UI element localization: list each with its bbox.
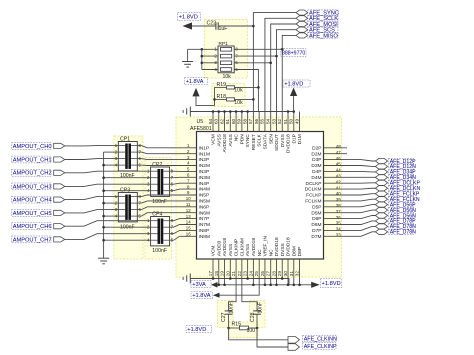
svg-text:AMPOUT_CH5: AMPOUT_CH5 (13, 211, 52, 217)
svg-text:VREF_IN: VREF_IN (263, 236, 269, 257)
svg-text:44: 44 (336, 168, 341, 173)
RP1 value 10k (223, 74, 232, 80)
svg-text:62: 62 (219, 118, 224, 124)
svg-text:31: 31 (289, 271, 294, 277)
svg-text:IN6M: IN6M (199, 210, 210, 216)
wire cap to U5 pin 5 (170, 170, 197, 172)
U5 bottom pin numbers (208, 271, 300, 277)
CP2 value 100nF (152, 199, 167, 205)
wire AVSS rail (190, 111, 293, 113)
svg-text:AVSS: AVSS (228, 244, 234, 256)
wire SCLK column (265, 18, 296, 111)
resistor R19 (227, 86, 235, 89)
wire R18 right to RESET (235, 98, 255, 101)
wire cap to U5 pin 9 (137, 195, 196, 197)
svg-text:D2M: D2M (311, 151, 321, 157)
resistor R18 (227, 98, 235, 101)
wire R15 left (229, 327, 240, 329)
wire MOSI column (271, 24, 296, 112)
wire U5 pin 46 (324, 160, 376, 161)
svg-text:U5: U5 (197, 119, 204, 125)
svg-text:D4M: D4M (311, 175, 321, 181)
U5 left pin names (199, 145, 210, 240)
net label AMPOUT_CH0 (12, 143, 52, 150)
port AFE_D78N pin 33 (375, 229, 387, 234)
net label 888+9770 (281, 49, 306, 57)
wire U5 pin 44 (324, 170, 376, 173)
junctions on AVSS rail (212, 110, 295, 113)
capacitor pack CP2 refdes (152, 162, 162, 168)
highlight box R18/R19 group (212, 84, 245, 107)
CP2 pin numbers (147, 169, 174, 194)
net label AFE_MISO (308, 33, 339, 40)
svg-text:IN3M: IN3M (199, 175, 210, 181)
wire AMPOUT_CH4 to cap (65, 197, 119, 200)
power label +1.8VD (bottom rail) (320, 279, 342, 288)
resistor R19 refdes (217, 82, 227, 88)
port AFE_D56P pin 38 (375, 202, 387, 207)
wire U5 pin 45 (324, 165, 376, 168)
wire U5 pin 47 stub (324, 153, 348, 155)
resistor R15 (240, 326, 249, 330)
svg-text:D7M: D7M (311, 234, 321, 240)
junctions on bottom AVSS rail (212, 277, 284, 280)
capacitor C27 (225, 311, 233, 314)
highlight box RP1/C22 group (205, 20, 248, 79)
ground (RP1) (182, 62, 193, 68)
svg-text:AMPOUT_CH2: AMPOUT_CH2 (13, 171, 52, 177)
ground (bottom rail left) (183, 274, 190, 284)
wire cap to U5 pin 12 (137, 213, 196, 216)
highlight box R15 (229, 322, 258, 338)
C28 refdes (250, 312, 256, 322)
wire AMPOUT_CH3 to cap (65, 184, 151, 186)
svg-text:AMPOUT_CH4: AMPOUT_CH4 (13, 198, 52, 204)
R15 value 100 (247, 328, 256, 334)
capacitor pack CP4 refdes (152, 212, 162, 218)
power label +1.8VD (lower left) (186, 326, 212, 333)
wire RP1 pin1 (188, 48, 218, 51)
highlight box CP2/CP4 column (145, 158, 172, 260)
svg-text:AFE5801: AFE5801 (190, 126, 212, 132)
U5 right pin names (305, 145, 322, 240)
svg-text:+3VA: +3VA (192, 282, 206, 288)
net label AMPOUT_CH3 (12, 183, 52, 190)
U5 top pin names (211, 133, 304, 153)
wire CLKINP drop (229, 259, 236, 311)
port AFE_MOSI (296, 21, 308, 26)
wire U5 pin 38 (324, 205, 376, 207)
svg-text:12: 12 (186, 208, 191, 213)
svg-text:D7P: D7P (312, 228, 321, 234)
wire RP1 pin6 (234, 62, 272, 65)
wire RP1 pin8 (234, 48, 283, 51)
net label AFE_D34P (389, 169, 417, 175)
svg-text:24: 24 (248, 271, 253, 277)
power +3VA arrow (211, 282, 218, 288)
power +1.8VA arrow (lower) (213, 293, 220, 298)
highlight box C28 (250, 301, 266, 328)
svg-text:+1.8VD: +1.8VD (284, 81, 303, 87)
port AMPOUT_CH3 (54, 184, 65, 189)
svg-text:25: 25 (254, 271, 259, 277)
net label AFE_FCLKP (389, 191, 420, 197)
svg-text:57: 57 (248, 118, 253, 124)
svg-text:100nF: 100nF (152, 248, 167, 254)
ground (input commons) (98, 258, 109, 264)
svg-text:10nF: 10nF (228, 302, 234, 313)
port AFE_D12N pin 45 (375, 164, 387, 169)
capacitor pack CP3 refdes (120, 188, 130, 194)
net label AFE_D78P (389, 218, 417, 224)
svg-text:+1.8VD: +1.8VD (179, 14, 198, 20)
wire bottom power rail (218, 284, 312, 286)
port AFE_D56N pin 36 (375, 213, 387, 218)
svg-text:20: 20 (225, 271, 230, 277)
svg-text:100nF: 100nF (152, 199, 167, 205)
svg-text:54: 54 (266, 118, 271, 124)
svg-text:DCLKP: DCLKP (306, 181, 322, 187)
svg-text:56: 56 (254, 118, 259, 124)
svg-text:34: 34 (336, 227, 341, 232)
power label +1.8VD (top left) (178, 13, 201, 21)
svg-text:14: 14 (186, 220, 191, 225)
net label AFE_D56N (389, 207, 417, 213)
svg-text:AVDD18: AVDD18 (222, 238, 228, 257)
port AMPOUT_CH6 (54, 224, 65, 229)
wire RP1 to ground (187, 49, 189, 61)
capacitor pack CP1 (118, 142, 137, 171)
capacitor C28 (253, 311, 261, 314)
resistor pack RP1 body (218, 46, 234, 73)
svg-text:D3P: D3P (312, 157, 321, 163)
net label AFE_D12P (389, 158, 417, 164)
svg-text:63: 63 (214, 118, 219, 124)
svg-text:DVSS: DVSS (280, 243, 286, 256)
port AMPOUT_CH4 (54, 197, 65, 202)
wire cap to U5 pin 15 (170, 230, 197, 233)
svg-text:AFE_CLKINP: AFE_CLKINP (304, 344, 337, 350)
op-amp U5 AFE5801 body (197, 132, 324, 260)
wire U5 pin 42 (324, 182, 376, 184)
U5 bottom pin names (211, 236, 304, 257)
net label AFE_D78N (389, 224, 417, 230)
capacitor pack CP4 (151, 217, 170, 246)
wire cap to U5 pin 3 (137, 159, 196, 160)
capacitor pack CP3 (118, 193, 137, 222)
svg-text:13: 13 (186, 214, 191, 219)
power label +1.8VA (upper) (185, 78, 208, 86)
svg-text:55: 55 (260, 118, 265, 124)
svg-text:52: 52 (277, 118, 282, 124)
svg-text:30: 30 (283, 271, 288, 277)
U5 refdes (197, 119, 204, 125)
svg-text:17: 17 (208, 271, 213, 277)
power label +1.8VA (lower) (191, 292, 213, 299)
svg-text:60: 60 (231, 118, 236, 124)
svg-text:+1.8VA: +1.8VA (192, 293, 211, 299)
port AMPOUT_CH2 (54, 170, 65, 175)
junctions on bottom power rail (217, 284, 300, 287)
net label AFE_DCLKP (389, 180, 421, 186)
svg-text:VCM: VCM (211, 246, 217, 257)
power +1.8VD arrow (183, 22, 193, 29)
svg-text:28: 28 (271, 271, 276, 277)
power +1.8VA arrow (upper) (192, 88, 199, 97)
net label AMPOUT_CH6 (12, 223, 52, 230)
svg-text:64: 64 (208, 118, 213, 124)
svg-text:CLKINM: CLKINM (239, 238, 245, 256)
wire cap to U5 pin 1 (137, 146, 196, 148)
svg-text:D2P: D2P (312, 145, 321, 151)
svg-text:SCLK: SCLK (257, 133, 263, 146)
svg-text:29: 29 (277, 271, 282, 277)
wire RP1 pins 2-4 tie (201, 49, 219, 69)
wire R19/R18 tie (213, 87, 216, 105)
svg-text:SYNC: SYNC (245, 134, 251, 148)
svg-text:D3M: D3M (311, 163, 321, 169)
U5 top pin wires (213, 112, 300, 132)
port AFE_D78N pin 34 (375, 224, 387, 229)
svg-text:D5P: D5P (312, 204, 321, 210)
svg-text:AMPOUT_CH1: AMPOUT_CH1 (13, 157, 52, 163)
ground (rail left) (183, 107, 190, 117)
port AFE_MISO (296, 33, 308, 38)
C22 value 1uF (219, 26, 228, 32)
svg-text:IN1M: IN1M (199, 151, 210, 157)
svg-text:SDOUT: SDOUT (274, 134, 280, 151)
svg-text:51: 51 (283, 118, 288, 124)
svg-text:AFE_D78N: AFE_D78N (390, 230, 416, 236)
highlight box C27 (218, 301, 234, 328)
wire to AFE_CLKINN (229, 328, 288, 340)
wires M-side cap returns (102, 152, 150, 241)
wire SYNC column (253, 13, 296, 112)
svg-text:AVSS: AVSS (216, 134, 222, 146)
wire cap to U5 pin 14 (170, 225, 197, 228)
svg-text:IN8P: IN8P (199, 228, 210, 234)
port AFE_SYNC (296, 10, 308, 15)
wire AMPOUT_CH0 to cap (65, 145, 119, 147)
wire AMPOUT_CH5 to cap (65, 210, 119, 213)
svg-text:10k: 10k (234, 100, 243, 106)
net label AFE_SCLK (308, 16, 338, 23)
capacitor pack CP2 (151, 167, 170, 196)
svg-text:IN5P: IN5P (199, 193, 210, 199)
port AMPOUT_CH0 (54, 143, 65, 148)
wire R15 right (249, 327, 258, 329)
wire U5 pin 37 (324, 210, 376, 213)
power label +3VA (191, 281, 211, 288)
svg-text:AFE_MISO: AFE_MISO (309, 33, 338, 39)
port AFE_D34P pin 44 (375, 169, 387, 174)
port AFE_CLKINN (288, 337, 300, 344)
R18 value 10k (234, 100, 243, 106)
net label AFE_FCLKN (389, 196, 420, 202)
svg-text:1uF: 1uF (219, 26, 228, 32)
wire cap to U5 pin 8 (170, 189, 197, 191)
wire AMPOUT_CH7 to cap (65, 234, 151, 240)
port AFE_DCLKN pin 41 (375, 186, 387, 191)
svg-text:59: 59 (237, 118, 242, 124)
wire RP1 pin7 (234, 55, 278, 58)
wire cap to U5 pin 11 (137, 207, 196, 210)
wire U5 pin 34 (324, 226, 376, 230)
svg-text:CLKINP: CLKINP (234, 239, 240, 256)
svg-text:D1P: D1P (291, 134, 297, 143)
wire R19 left (215, 86, 227, 88)
power label +1.8VD (283, 80, 310, 87)
svg-text:DCLKM: DCLKM (305, 187, 322, 193)
svg-text:IN8M: IN8M (199, 234, 210, 240)
net label AFE_SCS (308, 27, 338, 34)
wire cap to U5 pin 2 (137, 152, 196, 154)
svg-text:SDATA: SDATA (263, 133, 269, 149)
svg-text:DVDD18: DVDD18 (286, 237, 292, 256)
wire AMPOUT_CH6 to cap (65, 221, 151, 227)
svg-text:+1.8VA: +1.8VA (186, 79, 204, 85)
RP1 pin numbers (214, 47, 238, 72)
net label AMPOUT_CH4 (12, 196, 52, 203)
svg-text:10: 10 (186, 196, 191, 201)
svg-text:D4P: D4P (312, 169, 321, 175)
wire +1.8VA to VREF pin (220, 259, 260, 295)
svg-text:23: 23 (243, 271, 248, 277)
wire U5 pin 43 (324, 176, 376, 178)
U5 right pin numbers (336, 144, 341, 238)
svg-text:AMPOUT_CH3: AMPOUT_CH3 (13, 184, 52, 190)
resistor R18 refdes (217, 94, 227, 100)
wire U5 pin 41 (324, 187, 376, 190)
svg-text:AMPOUT_CH6: AMPOUT_CH6 (13, 224, 52, 230)
wire cap to U5 pin 4 (137, 164, 196, 166)
net label AMPOUT_CH1 (12, 156, 52, 163)
svg-text:VCM: VCM (211, 134, 217, 145)
CP4 pin numbers (147, 218, 174, 243)
net label AFE_CLKINN (303, 335, 338, 342)
port AFE_D34N pin 43 (375, 175, 387, 180)
svg-text:NC: NC (257, 249, 263, 256)
capacitor pack CP1 refdes (120, 137, 130, 143)
net label AFE_MOSI (308, 21, 338, 28)
C28 value 10nF (258, 302, 264, 313)
svg-text:+1.8VD: +1.8VD (187, 327, 206, 333)
wire SCS column (276, 30, 296, 112)
svg-text:DVSS: DVSS (280, 134, 286, 147)
wire cap to U5 pin 13 (170, 219, 197, 221)
wire CLKINM drop (242, 259, 257, 311)
svg-text:50: 50 (289, 118, 294, 124)
port AFE_FCLKP pin 40 (375, 191, 387, 196)
net label AFE_D78N (389, 229, 417, 235)
wire MISO column (282, 35, 296, 111)
svg-text:26: 26 (260, 271, 265, 277)
C22 refdes (207, 21, 217, 27)
U5 bottom pin wires (213, 259, 300, 285)
svg-text:AVDD3: AVDD3 (216, 240, 222, 256)
CP4 value 100nF (152, 248, 167, 254)
wire +1.8VA (196, 96, 215, 106)
svg-text:C27: C27 (221, 312, 227, 322)
U5 left pin numbers (186, 143, 191, 237)
svg-text:21: 21 (231, 271, 236, 277)
svg-text:FCLKP: FCLKP (306, 193, 321, 199)
wire +1.8VD to C22 (192, 25, 216, 27)
U5 top pin numbers (208, 118, 300, 124)
svg-text:61: 61 (225, 118, 230, 124)
CP1 value 100nF (120, 173, 135, 179)
wire U5 pin 35 (324, 221, 376, 225)
svg-text:DVDD18: DVDD18 (286, 134, 292, 153)
svg-text:49: 49 (294, 118, 299, 124)
resistor pack RP1 refdes (219, 41, 229, 47)
svg-text:D6P: D6P (312, 216, 321, 222)
svg-text:IN2M: IN2M (199, 163, 210, 169)
svg-text:AMPOUT_CH0: AMPOUT_CH0 (13, 144, 52, 150)
svg-text:888+9770: 888+9770 (282, 50, 305, 56)
net label AMPOUT_CH2 (12, 169, 52, 176)
wire U5 pin 36 (324, 216, 376, 219)
power +1.8VD arrow (bottom rail) (311, 282, 320, 288)
svg-text:AMPOUT_CH7: AMPOUT_CH7 (13, 237, 52, 243)
svg-text:IN7P: IN7P (199, 216, 210, 222)
CP3 value 100nF (120, 225, 135, 231)
svg-text:+1.8VD: +1.8VD (322, 281, 341, 287)
svg-text:39: 39 (336, 197, 341, 202)
wire C27 to R15 (227, 314, 230, 329)
port AFE_SCLK (296, 16, 308, 21)
svg-text:AVDD18: AVDD18 (222, 134, 228, 153)
net label AFE_D34N (389, 175, 417, 181)
R19 value 10k (234, 88, 243, 94)
CP1 pin numbers (115, 143, 142, 168)
svg-text:RESET: RESET (251, 134, 257, 150)
net label AFE_CLKINP (303, 343, 338, 350)
svg-text:10k: 10k (223, 74, 232, 80)
wire R18 left (215, 98, 227, 100)
svg-text:C22: C22 (207, 21, 217, 27)
svg-text:NC: NC (268, 249, 274, 256)
svg-text:18: 18 (214, 271, 219, 277)
svg-text:15: 15 (186, 226, 191, 231)
net label AFE_D56N (389, 213, 417, 219)
CP3 pin numbers (115, 194, 142, 219)
svg-text:D8M: D8M (291, 246, 297, 256)
net label AFE_D12N (389, 164, 417, 170)
port AFE_SCS (296, 27, 308, 32)
wire AMPOUT_CH2 to cap (65, 171, 151, 173)
port AFE_D12P pin 46 (375, 158, 387, 163)
svg-text:IN6P: IN6P (199, 204, 210, 210)
svg-text:IN1P: IN1P (199, 145, 210, 151)
svg-text:IN5M: IN5M (199, 199, 210, 205)
wire cap to U5 pin 6 (170, 176, 197, 178)
svg-text:D8P: D8P (297, 247, 303, 256)
svg-text:SEN: SEN (268, 134, 274, 144)
wire C28 to R15 (256, 314, 259, 329)
wire U5 pin 40 (324, 194, 376, 195)
svg-text:PDN: PDN (239, 134, 245, 145)
resistor R15 refdes (232, 322, 242, 328)
port AFE_DCLKP pin 42 (375, 180, 387, 185)
wire AMPOUT_CH1 to cap (65, 158, 119, 161)
svg-text:53: 53 (271, 118, 276, 124)
svg-text:19: 19 (220, 271, 225, 277)
svg-text:AVSS: AVSS (245, 244, 251, 256)
wire cap to U5 pin 16 (170, 236, 197, 240)
svg-text:AVSS: AVSS (228, 134, 234, 146)
svg-text:AVDD18: AVDD18 (251, 238, 257, 257)
